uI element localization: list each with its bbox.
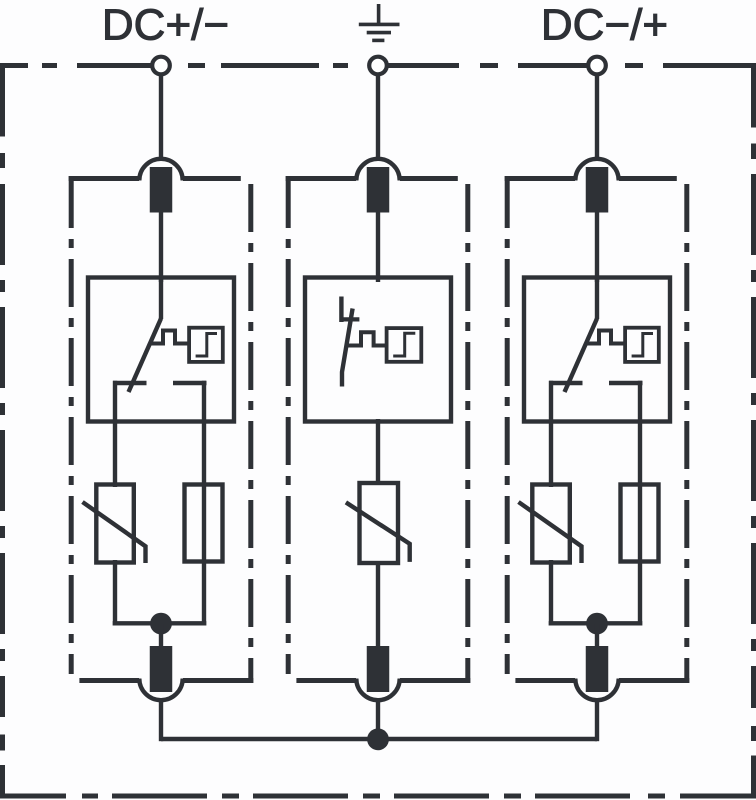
wire joining branches, module 3 bbox=[549, 621, 643, 625]
disconnector unit box U2 bbox=[305, 278, 451, 422]
wire top plug to disconnector box channel 2 (PE) bbox=[376, 212, 380, 282]
fixed contact tick, center module bbox=[341, 317, 359, 321]
module box bottom edge with plug arch channel 1 (DC+/-) bbox=[79, 678, 253, 683]
trip linkage step line, center module bbox=[347, 332, 389, 345]
wire terminal to top plug contact channel 2 (PE) bbox=[376, 74, 380, 159]
terminal circle channel 3 (DC-/+) bbox=[588, 57, 606, 75]
svg-text:DC−/+: DC−/+ bbox=[541, 1, 668, 50]
wire bottom plug to bus channel 2 (PE) bbox=[376, 700, 380, 741]
signalling device square, center module bbox=[387, 328, 422, 362]
varistor rect, module 3 bbox=[532, 485, 570, 563]
varistor diagonal stroke, module 3 bbox=[519, 502, 582, 563]
wire dash-dot enclosure bottom border bbox=[1, 794, 756, 799]
series element rect, module 3 bbox=[621, 485, 659, 562]
wire joining branches, module 1 bbox=[113, 621, 207, 625]
module box top edge with plug arch channel 1 (DC+/-) bbox=[69, 176, 241, 181]
wire varistor to bottom plug, center module bbox=[376, 561, 380, 650]
wire box to varistor, center module bbox=[376, 419, 380, 484]
step pulse icon, module 1 bbox=[196, 334, 217, 357]
module box bottom edge with plug arch channel 2 (PE) bbox=[296, 678, 470, 683]
wire top plug to disconnector box channel 1 (DC+/-) bbox=[159, 212, 163, 282]
fixed contact lead, center module bbox=[339, 297, 343, 323]
wire bottom plug to bus channel 1 (DC+/-) bbox=[159, 700, 163, 741]
step pulse icon, module 3 bbox=[632, 334, 653, 357]
trip linkage step line, module 3 bbox=[587, 331, 626, 344]
module box right edge channel 3 (DC-/+) bbox=[684, 184, 689, 683]
varistor rect, module 1 bbox=[96, 485, 134, 563]
terminal circle channel 1 (DC+/-) bbox=[152, 57, 170, 75]
junction dot, module 3 bbox=[586, 613, 608, 635]
wire varistor to junction, module 3 bbox=[549, 560, 553, 626]
wire terminal to top plug contact channel 1 (DC+/-) bbox=[159, 74, 163, 159]
disconnector unit box U1 bbox=[88, 278, 234, 422]
bus junction dot bbox=[367, 728, 389, 750]
series element rect, module 1 bbox=[185, 485, 223, 562]
varistor diagonal stroke, center module bbox=[346, 502, 410, 562]
module box bottom edge with plug arch channel 3 (DC-/+) bbox=[515, 678, 689, 683]
module box top edge with plug arch channel 3 (DC-/+) bbox=[505, 176, 677, 181]
switch blade Q3 (thermal disconnector) bbox=[565, 319, 598, 393]
wire bracket through series branch, module 3 bbox=[638, 381, 642, 626]
wire bracket through series branch, module 1 bbox=[202, 381, 206, 626]
junction dot, module 1 bbox=[150, 613, 172, 635]
wire terminal to top plug contact channel 3 (DC-/+) bbox=[595, 74, 599, 159]
svg-text:DC+/−: DC+/− bbox=[102, 1, 229, 50]
fixed contact bracket, module 3 bbox=[549, 381, 643, 385]
wire junction to bottom plug, module 1 bbox=[159, 624, 163, 650]
top plug contact channel 2 (PE) bbox=[367, 167, 390, 213]
wire into switch, module 3 bbox=[595, 277, 599, 319]
bottom plug contact channel 3 (DC-/+) bbox=[586, 646, 609, 692]
module box left edge channel 1 (DC+/-) bbox=[69, 176, 74, 674]
step pulse icon, center module bbox=[393, 333, 415, 356]
signalling device square, module 1 bbox=[189, 328, 223, 362]
varistor rect, center module bbox=[360, 483, 399, 563]
terminal circle channel 2 (PE) bbox=[369, 57, 387, 75]
wire top plug to disconnector box channel 3 (DC-/+) bbox=[595, 212, 599, 282]
varistor diagonal stroke, module 1 bbox=[83, 502, 146, 563]
bottom plug contact channel 1 (DC+/-) bbox=[150, 646, 173, 692]
signalling device square, module 3 bbox=[625, 328, 659, 362]
module box right edge channel 1 (DC+/-) bbox=[248, 184, 253, 683]
wire dash-dot enclosure top border bbox=[1, 63, 756, 68]
module box left edge channel 2 (PE) bbox=[286, 176, 291, 674]
module box left edge channel 3 (DC-/+) bbox=[505, 176, 510, 674]
fixed contact bracket, module 1 bbox=[113, 381, 207, 385]
bottom PE bus wire bbox=[161, 737, 597, 741]
wire varistor to junction, module 1 bbox=[113, 560, 117, 626]
trip linkage step line, module 1 bbox=[151, 331, 190, 344]
wire bracket to varistor, module 1 bbox=[113, 381, 117, 487]
wire dash-dot enclosure right border bbox=[751, 63, 756, 799]
wire junction to bottom plug, module 3 bbox=[595, 624, 599, 650]
wire bottom plug to bus channel 3 (DC-/+) bbox=[595, 700, 599, 741]
top plug contact channel 1 (DC+/-) bbox=[150, 167, 173, 213]
disconnector unit box U3 bbox=[524, 278, 670, 422]
wire into switch, module 1 bbox=[159, 277, 163, 319]
bottom plug contact channel 2 (PE) bbox=[367, 646, 390, 692]
ground symbol bbox=[359, 4, 400, 40]
top plug contact channel 3 (DC-/+) bbox=[586, 167, 609, 213]
wire bracket to varistor, module 3 bbox=[549, 381, 553, 487]
switch blade Q1 (thermal disconnector) bbox=[129, 319, 162, 393]
switch blade, center module bbox=[342, 309, 353, 387]
module box top edge with plug arch channel 2 (PE) bbox=[286, 176, 458, 181]
wire dash-dot enclosure left border bbox=[0, 63, 5, 799]
module box right edge channel 2 (PE) bbox=[465, 184, 470, 683]
